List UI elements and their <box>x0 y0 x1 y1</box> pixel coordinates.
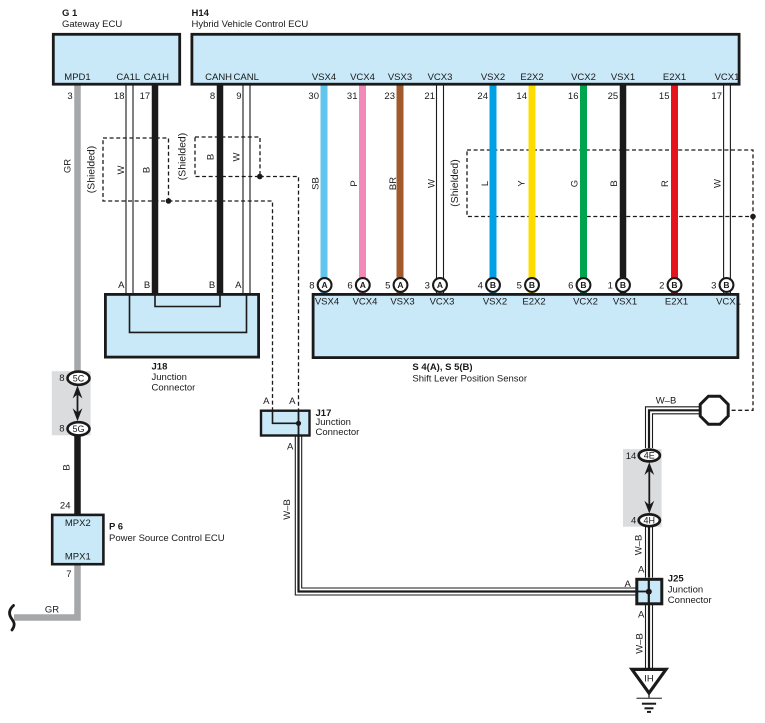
wire W CA1L (white, pin 18 to J18 A) <box>126 85 133 293</box>
ground IH <box>632 669 666 712</box>
connector oval 4E <box>639 450 660 462</box>
svg-text:3: 3 <box>711 281 716 292</box>
svg-text:3: 3 <box>425 281 430 292</box>
svg-text:4: 4 <box>631 516 636 527</box>
svg-text:B: B <box>620 280 626 290</box>
svg-text:B: B <box>62 464 73 470</box>
svg-text:Connector: Connector <box>668 595 712 606</box>
svg-text:L: L <box>480 181 491 186</box>
ECU box H14 <box>192 34 739 84</box>
svg-text:B: B <box>206 154 217 160</box>
sensor box S4/S5 <box>313 294 738 357</box>
svg-text:W: W <box>116 165 127 174</box>
wire break squiggle <box>10 606 15 631</box>
svg-text:E2X1: E2X1 <box>665 296 688 307</box>
svg-text:A: A <box>360 280 366 290</box>
svg-text:W–B: W–B <box>634 535 645 556</box>
connector block 5C/5G (gray) <box>52 371 91 435</box>
wire SB VSX4 <box>321 85 328 293</box>
connector oval 5G <box>68 422 90 435</box>
shield drain wire 2 to J17 pin A <box>260 177 299 410</box>
svg-text:P: P <box>349 180 360 186</box>
wire P VCX4 <box>359 85 366 293</box>
svg-text:SB: SB <box>311 177 322 190</box>
junction dot shield 2 <box>257 174 263 180</box>
svg-text:A: A <box>437 280 443 290</box>
svg-text:MPX1: MPX1 <box>65 552 91 563</box>
svg-text:Gateway ECU: Gateway ECU <box>62 19 122 30</box>
svg-text:A: A <box>289 396 296 407</box>
wire W-B J17 to J25 <box>295 436 636 595</box>
svg-text:B: B <box>490 280 496 290</box>
svg-text:8: 8 <box>59 373 64 384</box>
svg-text:VCX3: VCX3 <box>430 296 455 307</box>
ECU box G1 <box>53 34 179 84</box>
svg-text:21: 21 <box>424 91 435 102</box>
svg-text:A: A <box>638 610 645 621</box>
svg-text:8: 8 <box>309 281 314 292</box>
svg-text:A: A <box>263 396 270 407</box>
arrow between 5C and 5G <box>77 392 79 415</box>
svg-text:H14: H14 <box>192 8 210 19</box>
svg-text:(Shielded): (Shielded) <box>178 133 189 180</box>
svg-text:VSX1: VSX1 <box>613 296 637 307</box>
svg-text:IH: IH <box>644 674 654 685</box>
svg-text:4H: 4H <box>644 515 656 525</box>
svg-text:VSX4: VSX4 <box>315 296 339 307</box>
svg-text:GR: GR <box>45 605 59 616</box>
sensor pin circles A/B <box>318 278 734 292</box>
svg-text:Y: Y <box>517 180 528 187</box>
junction connector J18 box <box>105 294 258 357</box>
J18 internal loop A-A <box>130 294 247 333</box>
shield drain wire 1 to J17 pin A <box>169 201 273 410</box>
svg-text:8: 8 <box>59 424 64 435</box>
J18 pin letters <box>118 280 242 291</box>
shield drain wire 3 to noise filter <box>729 217 753 411</box>
connector oval 5C <box>68 372 90 385</box>
svg-text:VSX3: VSX3 <box>388 72 412 83</box>
svg-text:4: 4 <box>478 281 483 292</box>
svg-text:W: W <box>427 179 438 188</box>
svg-text:Hybrid Vehicle Control ECU: Hybrid Vehicle Control ECU <box>192 19 309 30</box>
shield box 1 (G1 CA1L/CA1H) dashed <box>103 138 169 201</box>
svg-text:5C: 5C <box>73 373 85 383</box>
svg-text:B: B <box>529 280 535 290</box>
wire GR from P6 pin 7 to break <box>14 565 78 618</box>
connector oval 4H <box>639 514 660 526</box>
svg-text:VSX1: VSX1 <box>611 72 635 83</box>
wire G VCX2 <box>580 85 587 293</box>
svg-text:CA1L: CA1L <box>116 72 140 83</box>
svg-text:16: 16 <box>568 91 579 102</box>
wire W VCX1 (white, pin 17 to sensor pin 3B) <box>724 85 731 293</box>
svg-text:A: A <box>397 280 403 290</box>
J17 internal link <box>273 410 299 423</box>
svg-text:A: A <box>638 564 645 575</box>
svg-text:18: 18 <box>114 91 125 102</box>
svg-text:W–B: W–B <box>656 396 677 407</box>
svg-text:1: 1 <box>608 281 613 292</box>
svg-text:6: 6 <box>568 281 573 292</box>
svg-text:W–B: W–B <box>634 633 645 654</box>
svg-text:6: 6 <box>347 281 352 292</box>
rotated wire labels <box>62 133 724 654</box>
svg-text:VCX3: VCX3 <box>428 72 453 83</box>
svg-text:G: G <box>570 180 581 187</box>
svg-text:VCX4: VCX4 <box>350 72 375 83</box>
svg-text:7: 7 <box>66 569 71 580</box>
svg-text:A: A <box>235 280 242 291</box>
svg-text:E2X1: E2X1 <box>663 72 686 83</box>
svg-text:W–B: W–B <box>282 499 293 520</box>
svg-text:MPX2: MPX2 <box>65 518 91 529</box>
svg-text:W: W <box>713 179 724 188</box>
svg-text:Shift Lever Position Sensor: Shift Lever Position Sensor <box>412 374 527 385</box>
shield box 3 (sensor wires) dashed <box>467 150 753 217</box>
svg-text:B: B <box>209 280 215 291</box>
svg-text:2: 2 <box>659 281 664 292</box>
wire W CANL (white, pin 9 to J18 A) <box>243 85 250 293</box>
svg-text:VCX1: VCX1 <box>715 72 740 83</box>
svg-text:17: 17 <box>140 91 151 102</box>
svg-text:J25: J25 <box>668 573 685 584</box>
svg-text:A: A <box>118 280 125 291</box>
svg-text:CA1H: CA1H <box>144 72 169 83</box>
svg-text:VSX4: VSX4 <box>312 72 336 83</box>
svg-text:B: B <box>142 167 153 173</box>
wire B CANH pin 8 to J18 B <box>217 85 224 293</box>
svg-text:W: W <box>232 152 243 161</box>
junction connector J25 box <box>637 579 662 604</box>
svg-text:VCX4: VCX4 <box>353 296 378 307</box>
svg-text:VSX3: VSX3 <box>390 296 414 307</box>
svg-text:Power Source Control ECU: Power Source Control ECU <box>109 533 225 544</box>
svg-text:B: B <box>723 280 729 290</box>
svg-text:(Shielded): (Shielded) <box>450 159 461 206</box>
arrow between 4E and 4H <box>648 468 650 508</box>
wire W VCX3 (white, pin 21 to sensor pin 3A) <box>437 85 444 293</box>
svg-text:E2X2: E2X2 <box>520 72 543 83</box>
pin numbers below boxes <box>67 91 722 102</box>
wire B CA1H pin 17 to J18 B <box>152 85 159 293</box>
svg-text:15: 15 <box>659 91 670 102</box>
svg-text:24: 24 <box>477 91 488 102</box>
svg-text:B: B <box>580 280 586 290</box>
wire BR VSX3 <box>397 85 404 293</box>
svg-text:A: A <box>287 442 294 453</box>
svg-text:B: B <box>609 180 620 186</box>
svg-text:CANL: CANL <box>234 72 259 83</box>
junction dot shield 3 <box>750 214 756 220</box>
wire B VSX1 <box>620 85 627 293</box>
svg-text:(Shielded): (Shielded) <box>87 146 98 193</box>
sensor pin numbers <box>309 281 716 292</box>
svg-text:GR: GR <box>62 159 73 173</box>
svg-text:17: 17 <box>711 91 722 102</box>
svg-text:VCX2: VCX2 <box>571 72 596 83</box>
junction connector J17 box <box>261 411 310 436</box>
svg-text:VSX2: VSX2 <box>481 72 505 83</box>
J25 internal link <box>648 578 650 605</box>
svg-text:CANH: CANH <box>205 72 232 83</box>
svg-text:23: 23 <box>384 91 395 102</box>
svg-text:P 6: P 6 <box>109 522 123 533</box>
svg-text:3: 3 <box>67 91 72 102</box>
svg-text:8: 8 <box>210 91 215 102</box>
ECU box P6 <box>52 515 103 564</box>
svg-text:14: 14 <box>626 451 637 462</box>
wire W-B noise filter to 4E <box>646 407 702 448</box>
svg-text:30: 30 <box>308 91 319 102</box>
svg-text:B: B <box>671 280 677 290</box>
svg-text:VSX2: VSX2 <box>483 296 507 307</box>
wire W-B J25 to ground IH <box>646 605 653 670</box>
wire W-B 4H to J25 <box>646 527 653 578</box>
J18 internal loop B-B <box>155 294 220 307</box>
connector block 4E/4H (gray) <box>623 449 662 527</box>
svg-text:B: B <box>144 280 150 291</box>
svg-text:VCX2: VCX2 <box>573 296 598 307</box>
wire B 5G to P6 pin 24 <box>74 434 81 515</box>
svg-text:S 4(A), S 5(B): S 4(A), S 5(B) <box>412 362 472 373</box>
svg-text:5G: 5G <box>72 424 84 434</box>
sensor pin names <box>315 296 741 307</box>
svg-text:31: 31 <box>347 91 358 102</box>
svg-text:VCX1: VCX1 <box>716 296 741 307</box>
svg-text:5: 5 <box>385 281 390 292</box>
svg-text:A: A <box>624 579 631 590</box>
wire Y E2X2 <box>529 85 536 293</box>
wire GR MPD1 pin 3 to 5C <box>74 85 81 373</box>
J17 labels <box>263 396 296 453</box>
svg-text:5: 5 <box>517 281 522 292</box>
wire R E2X1 <box>671 85 678 293</box>
noise filter octagon <box>700 396 728 424</box>
svg-text:BR: BR <box>388 177 399 190</box>
svg-text:25: 25 <box>608 91 619 102</box>
svg-text:G 1: G 1 <box>62 8 78 19</box>
svg-text:4E: 4E <box>644 451 655 461</box>
svg-text:Connector: Connector <box>152 382 196 393</box>
junction dot shield 1 <box>166 198 172 204</box>
svg-text:A: A <box>322 280 328 290</box>
svg-text:Connector: Connector <box>316 427 360 438</box>
svg-text:14: 14 <box>516 91 527 102</box>
svg-text:J18: J18 <box>152 362 168 373</box>
svg-text:MPD1: MPD1 <box>64 72 90 83</box>
svg-text:9: 9 <box>236 91 241 102</box>
svg-text:R: R <box>660 180 671 187</box>
svg-text:24: 24 <box>60 501 71 512</box>
shield box 2 (H14 CANH/CANL) dashed <box>195 137 260 177</box>
svg-text:E2X2: E2X2 <box>522 296 545 307</box>
wire L VSX2 <box>490 85 497 293</box>
